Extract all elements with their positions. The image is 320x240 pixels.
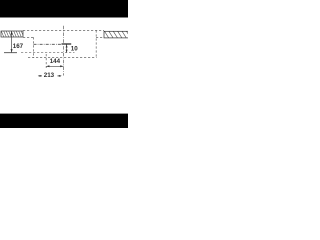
10-dim top reference solid <box>62 43 72 45</box>
dimension 10 arrow <box>66 45 68 53</box>
top letterbox band <box>0 0 128 18</box>
worktop left bar <box>1 31 24 37</box>
dashed worktop bottom stub right <box>96 36 104 38</box>
bottom letterbox band <box>0 114 128 128</box>
inner step vertical dashed <box>33 37 35 58</box>
cabinet bottom dashed <box>28 56 97 58</box>
worktop right bar <box>105 31 131 38</box>
dimension 144 line <box>46 65 63 67</box>
drawer top level dashed <box>21 52 75 54</box>
10 arrow down <box>66 50 68 53</box>
144 arrow right <box>60 65 63 67</box>
167 arrow down <box>11 49 13 53</box>
167 arrow up <box>11 31 13 35</box>
144 left extension dashed <box>45 54 47 68</box>
10 arrow up <box>66 45 68 48</box>
drawer top solid segment left <box>4 52 17 54</box>
svg-text:10: 10 <box>71 45 78 52</box>
144 arrow left <box>46 65 49 67</box>
dashed worktop bottom stub left <box>23 36 34 38</box>
dashed worktop top level line <box>23 29 104 31</box>
svg-text:144: 144 <box>50 58 61 65</box>
svg-text:167: 167 <box>13 43 24 50</box>
dimension 213 left arrow <box>39 75 42 77</box>
dimension 213 right arrow <box>58 75 61 77</box>
dimension 167 line <box>11 32 13 53</box>
centerline dash-dot <box>63 26 65 76</box>
svg-text:213: 213 <box>44 72 55 79</box>
appliance bottom dashed <box>34 43 63 45</box>
cabinet right edge dashed <box>95 30 97 57</box>
